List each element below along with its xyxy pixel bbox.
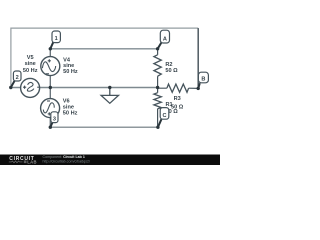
V4 plus sign <box>48 59 51 62</box>
V5 minus sign <box>37 86 39 88</box>
node 2 pointer <box>11 81 15 88</box>
node 1 flag <box>52 31 60 43</box>
junction dot node 1 <box>49 47 52 50</box>
resistor R3 (horizontal) <box>158 84 199 92</box>
wire stub V4 top <box>49 49 51 57</box>
node 2 flag <box>13 71 21 81</box>
svg-text:50 Hz: 50 Hz <box>63 69 78 75</box>
V6 plus sign <box>48 112 51 115</box>
voltage source V4 <box>41 57 60 76</box>
svg-text:50 Hz: 50 Hz <box>63 110 78 116</box>
svg-text:LAB: LAB <box>27 159 37 164</box>
svg-text:1: 1 <box>55 36 58 42</box>
svg-text:R3: R3 <box>174 96 181 102</box>
V5 label <box>23 55 38 74</box>
svg-text:A: A <box>163 36 167 42</box>
V5 plus sign <box>23 86 26 89</box>
ground <box>101 88 118 104</box>
node A pointer <box>158 42 162 48</box>
node 3 flag <box>51 112 58 123</box>
wire top: node 1 to node A <box>50 48 157 50</box>
V6 minus sign <box>47 100 50 102</box>
node A flag <box>160 30 169 43</box>
wire node B vertical (right edge dark) <box>197 28 199 88</box>
wire stub V6 bottom <box>49 118 51 128</box>
junction dot node 3 <box>49 126 52 129</box>
node C flag <box>160 108 169 120</box>
V4 label <box>63 57 78 75</box>
wire loop node2 to node B (left edge, top edge) <box>11 28 198 88</box>
resistor R2 (vertical) <box>154 49 161 88</box>
node 3 pointer <box>50 123 52 128</box>
junction dot node A <box>156 47 159 50</box>
junction dot load star <box>156 86 159 89</box>
R3 label <box>171 96 184 110</box>
svg-text:50 Ω: 50 Ω <box>171 104 184 110</box>
junction dot ground <box>108 86 111 89</box>
wire bottom: node 3 to node C <box>50 126 158 128</box>
svg-text:50 Ω: 50 Ω <box>165 68 178 74</box>
footer logo zigzag <box>9 161 23 163</box>
wire stub V4 bottom <box>49 76 51 88</box>
node B pointer <box>198 83 200 88</box>
svg-text:http://circuitlab.com/c/ba6qs2: http://circuitlab.com/c/ba6qs2/ <box>43 159 91 163</box>
wire middle neutral <box>11 87 158 89</box>
svg-text:B: B <box>201 77 205 83</box>
footer bar <box>0 155 220 166</box>
svg-text:sine: sine <box>25 61 36 67</box>
node B flag <box>198 72 208 83</box>
junction dot node 2 <box>9 86 12 89</box>
junction dot neutral at sources <box>49 86 52 89</box>
R2 label <box>165 62 178 74</box>
V4 minus sign <box>46 73 49 75</box>
voltage source V5 (rotated) <box>21 78 40 97</box>
node 1 pointer <box>50 42 53 49</box>
footer logo block <box>24 160 27 163</box>
junction dot node B <box>197 87 200 90</box>
wire stub V6 top <box>49 88 51 99</box>
svg-text:50 Hz: 50 Hz <box>23 68 38 74</box>
resistor R1 (vertical, bottom) <box>154 88 161 128</box>
V6 label <box>63 99 78 117</box>
R1 label <box>166 102 179 115</box>
node C pointer <box>158 119 162 127</box>
junction dot node C <box>156 126 159 129</box>
svg-text:2: 2 <box>16 75 19 81</box>
voltage source V6 (rotated 180) <box>41 99 60 118</box>
svg-text:3: 3 <box>53 116 56 122</box>
svg-text:C: C <box>162 113 166 119</box>
